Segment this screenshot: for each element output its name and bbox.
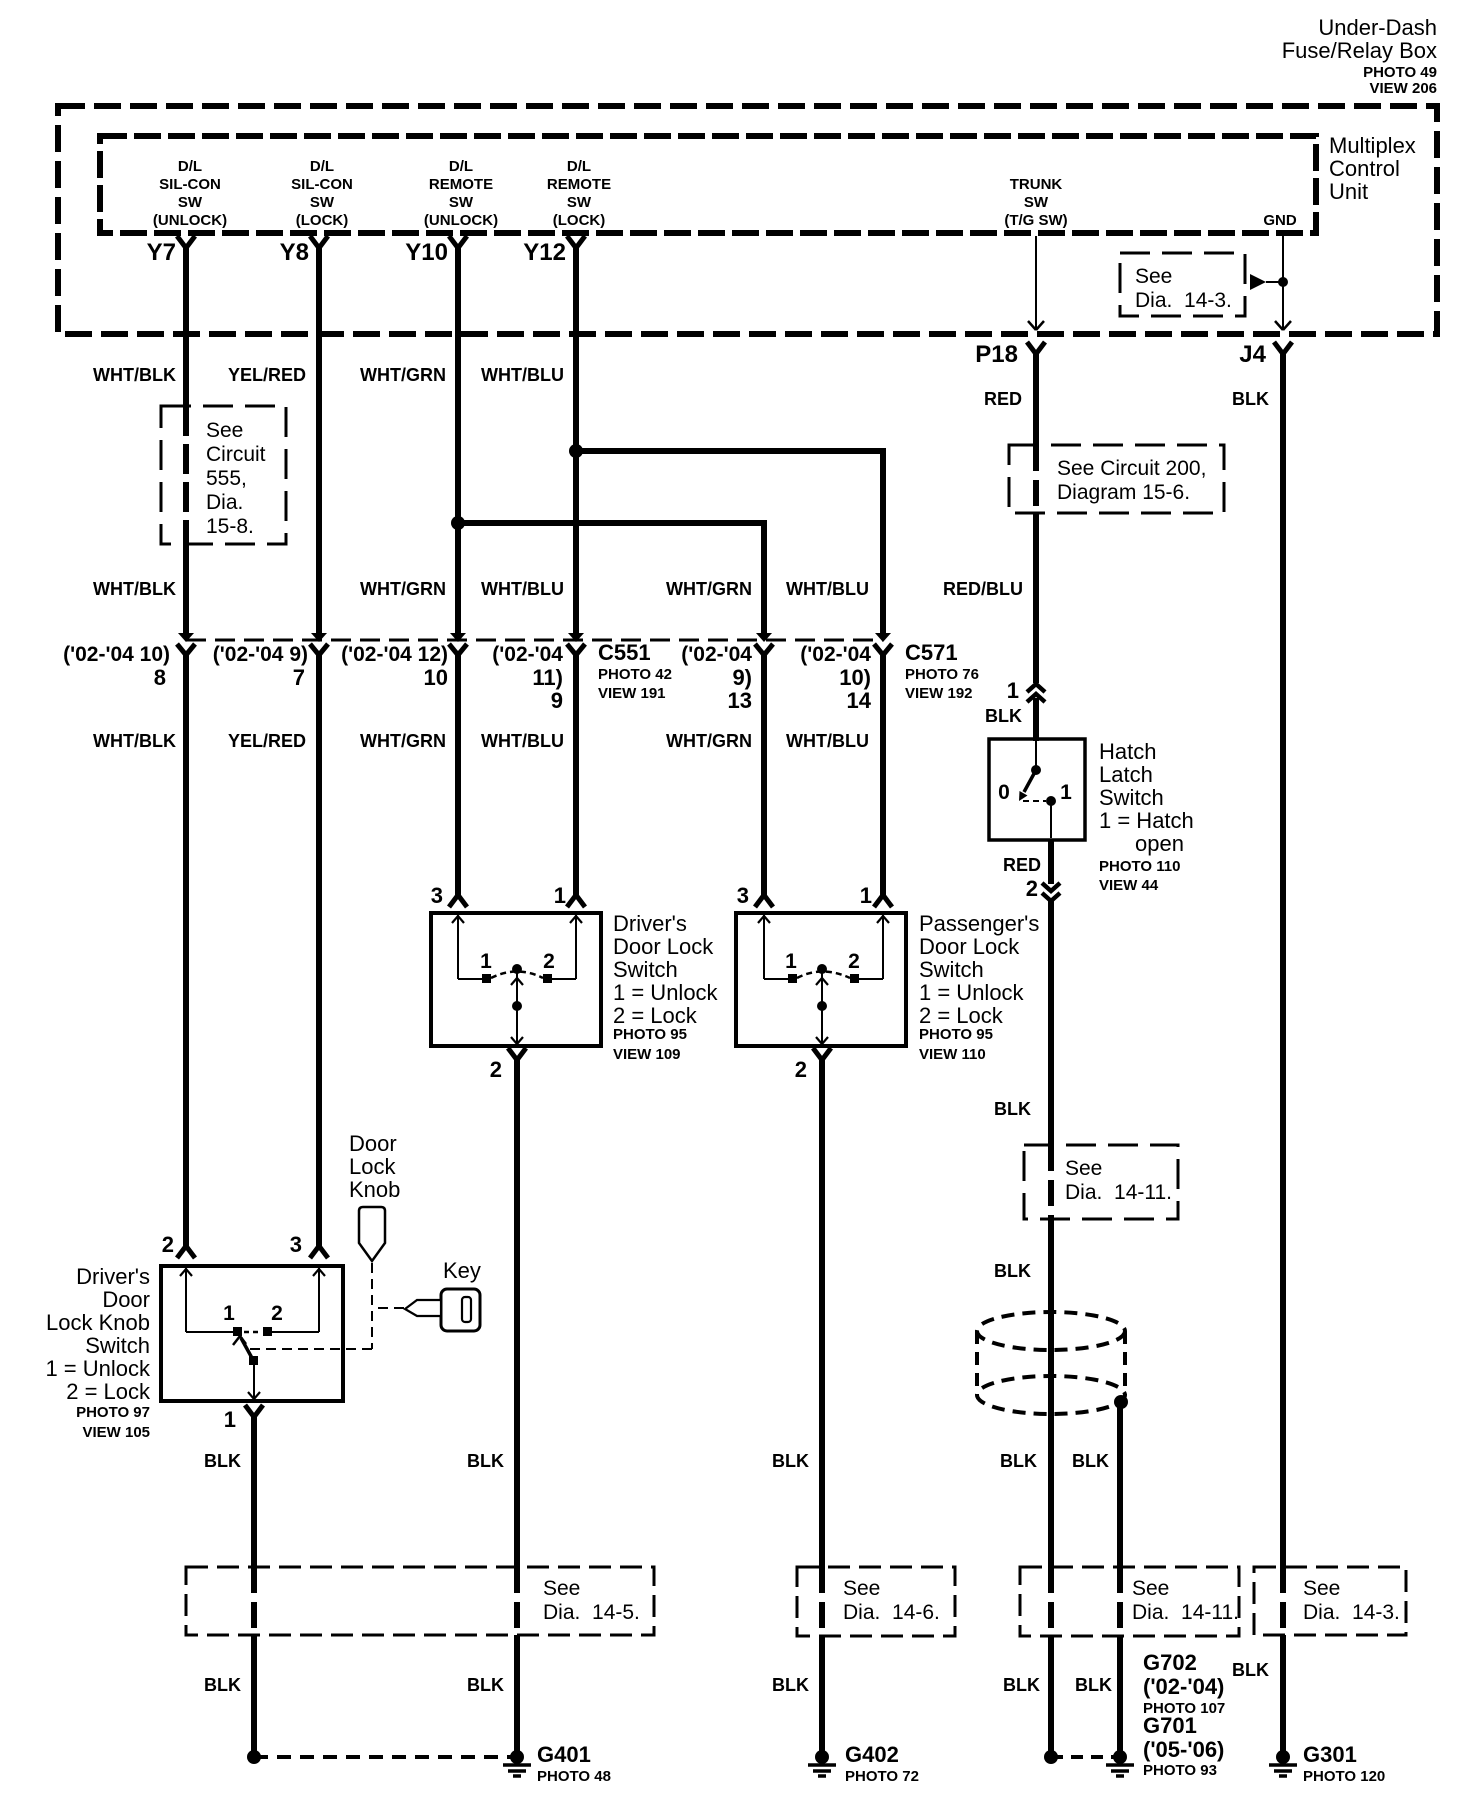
door lock switch pin 2 internal lead xyxy=(821,972,823,1044)
wire Y7 segment to connector C551 xyxy=(183,545,189,634)
driver's door lock switch pin 2 fork xyxy=(508,1048,526,1060)
dashed ground link to G702/G701 xyxy=(1051,1755,1120,1759)
passenger's door lock switch pin 1 fork xyxy=(874,895,892,907)
wire BLK dashed inside See Dia. 14-5 box (knob switch) xyxy=(251,1567,257,1635)
in-line connector terminals at x=319 xyxy=(311,633,327,642)
ground G702/G701 xyxy=(1113,1750,1127,1764)
driver's door lock knob switch box xyxy=(161,1266,343,1401)
wire BLK branch to ground G702/G701 xyxy=(1117,1635,1123,1752)
pin P18 connector fork xyxy=(1027,342,1045,354)
door lock switch contact 2 xyxy=(543,974,552,983)
mechanical link: key to knob link (dashed) xyxy=(373,1307,404,1309)
wire BLK dashed inside See Dia. 14-6 box xyxy=(819,1567,825,1635)
hatch latch switch box xyxy=(989,739,1085,840)
passenger's door lock switch pin 2 fork xyxy=(813,1048,831,1060)
knob switch pin 2 internal lead xyxy=(185,1268,187,1332)
in-line connector terminals at x=764 xyxy=(756,633,772,642)
knob switch pin 1 internal lead xyxy=(253,1365,255,1399)
door lock switch wiper pivot xyxy=(817,964,827,974)
key symbol head xyxy=(441,1289,480,1331)
mechanical link: knob to switch arm (dashed) xyxy=(371,1263,373,1349)
wire WHT/GRN lower segment to driver's door lock switch pin 3 xyxy=(455,651,461,897)
door lock switch contact 2 xyxy=(850,974,859,983)
wire WHT/BLU branch vertical run to C551 xyxy=(880,448,886,634)
door lock switch pin 3 internal lead xyxy=(457,915,459,979)
driver's door lock switch pin 1 fork xyxy=(567,895,585,907)
driver's door lock switch pin 3 fork xyxy=(449,895,467,907)
reference box: See Dia. 14-5 xyxy=(186,1567,654,1635)
pin J4 connector fork xyxy=(1274,342,1292,354)
wire WHT/GRN lower segment to passenger's door lock switch pin 3 xyxy=(761,651,767,897)
knob switch dashed throw xyxy=(244,1331,262,1334)
passenger's door lock switch pin 3 fork xyxy=(755,895,773,907)
door lock switch pin 2 internal lead xyxy=(516,972,518,1044)
key symbol blade xyxy=(405,1300,441,1316)
dashed ground link to G401 xyxy=(254,1755,517,1759)
wire Y12 WHT/BLU to connector C551 xyxy=(573,246,579,634)
node: hatch circuit ground splice xyxy=(1044,1750,1058,1764)
in-line connector terminals at x=576 xyxy=(568,633,584,642)
hatch latch switch contact 1 lead xyxy=(1050,801,1052,838)
wire BLK into hatch latch switch xyxy=(1033,698,1039,741)
node on wire Y12 (junction to passenger door lock switch pin 1) xyxy=(569,444,583,458)
in-line connector terminals at x=186 xyxy=(178,633,194,642)
harness loop left side xyxy=(975,1331,979,1395)
wire BLK passenger's switch to ground G402 xyxy=(819,1635,825,1752)
wire BLK below connector 2 xyxy=(1048,899,1054,1145)
wire BLK from J4 xyxy=(1280,352,1286,1567)
wire BLK from See 14-11 box to harness loop xyxy=(1048,1219,1054,1567)
wire RED from hatch latch switch pin 2 xyxy=(1048,840,1054,884)
wire BLK dashed inside See Dia. 14-11 bottom box (branch) xyxy=(1117,1567,1123,1635)
door lock knob symbol xyxy=(359,1207,385,1261)
node on GND lead (link to See Dia. 14-3) xyxy=(1278,277,1288,287)
wire WHT/GRN branch vertical run to C551 xyxy=(761,520,767,634)
driver's door lock switch box xyxy=(431,913,601,1046)
passenger's door lock switch box xyxy=(736,913,906,1046)
connector C551/C571 dashed separation line xyxy=(186,639,883,642)
door lock switch dashed wiper travel xyxy=(491,972,543,979)
door lock switch dashed wiper travel xyxy=(797,972,850,979)
hatch latch switch dashed throw xyxy=(1023,800,1046,802)
wire BLK from driver's door lock switch pin 2 xyxy=(514,1056,520,1567)
reference box: See Dia. 14-3 (bottom) xyxy=(1254,1567,1406,1635)
pin P18 lead inside fuse/relay box xyxy=(1035,236,1037,329)
node on harness loop (branch to G702/G701) xyxy=(1114,1395,1128,1409)
link arrow from See Dia. 14-3 box xyxy=(1266,281,1281,283)
wire BLK dashed inside See Dia. 14-5 box (driver's switch) xyxy=(514,1567,520,1635)
node: knob switch ground splice xyxy=(247,1750,261,1764)
pin GND lead inside fuse/relay box xyxy=(1282,236,1284,329)
wire Y7 dashed inside See-Circuit-555 box xyxy=(183,406,189,545)
ground G402 xyxy=(815,1750,829,1764)
wire BLK to ground G701 area xyxy=(1048,1635,1054,1752)
wire RED dashed inside See-Circuit-200 box xyxy=(1033,445,1039,513)
harness loop (dashed cylinder) upper ellipse xyxy=(977,1312,1125,1350)
wire BLK J4 to ground G301 xyxy=(1280,1635,1286,1752)
wire WHT/BLU lower segment to passenger's door lock switch pin 1 xyxy=(880,651,886,897)
door lock switch wiper pivot xyxy=(512,964,522,974)
wire Y10 WHT/GRN to connector C551 xyxy=(455,246,461,634)
wire Y8 lower segment (to knob switch pin 3) xyxy=(316,651,322,1248)
wire Y7 lower segment (to knob switch pin 2) xyxy=(183,651,189,1248)
reference box: See Dia. 14-11 (bottom) xyxy=(1020,1567,1239,1636)
wire Y8 YEL/RED to connector C551 xyxy=(316,246,322,634)
pin Y8 connector fork xyxy=(310,236,328,248)
hatch latch switch common contact lead xyxy=(1035,741,1037,767)
under-dash fuse/relay box (outer dashed enclosure) xyxy=(58,106,1437,334)
wire BLK branch from harness loop to ground xyxy=(1117,1402,1123,1567)
pin Y10 connector fork xyxy=(449,236,467,248)
wire Y7 WHT/BLK upper segment xyxy=(183,246,189,406)
harness loop right side xyxy=(1123,1331,1127,1395)
knob switch contact 2 xyxy=(263,1327,272,1336)
knob switch pin 1 fork xyxy=(245,1405,263,1417)
driver's door lock knob switch pin 2 fork xyxy=(177,1246,195,1258)
door lock switch contact 1 xyxy=(788,974,797,983)
reference box: See Circuit 555, Dia. 15-8 xyxy=(161,406,286,544)
wire BLK knob switch to ground G401 xyxy=(251,1635,257,1752)
wire BLK dashed inside See Dia. 14-11 bottom box (main) xyxy=(1048,1567,1054,1635)
in-line connector terminals at x=458 xyxy=(450,633,466,642)
door lock switch contact 1 xyxy=(482,974,491,983)
knob switch pin 3 internal lead xyxy=(318,1268,320,1332)
reference box: See Dia. 14-3 (top) xyxy=(1120,253,1245,316)
harness loop lower ellipse xyxy=(977,1376,1125,1414)
knob switch arm xyxy=(241,1338,252,1358)
knob switch contact 1 xyxy=(233,1327,242,1336)
key symbol slot xyxy=(462,1297,471,1322)
hatch latch switch arm xyxy=(1024,770,1036,792)
ground G301 xyxy=(1276,1750,1290,1764)
in-line connector 2 (hatch latch switch) xyxy=(1042,883,1060,891)
wire BLK from passenger's door lock switch pin 2 xyxy=(819,1056,825,1567)
ground G401 xyxy=(510,1750,524,1764)
in-line connector terminals at x=883 xyxy=(875,633,891,642)
wire RED/BLU to connector 1 xyxy=(1033,513,1039,683)
node on wire Y10 (junction to passenger door lock switch pin 3) xyxy=(451,516,465,530)
reference box: See Dia. 14-6 xyxy=(797,1567,955,1636)
driver's door lock knob switch pin 3 fork xyxy=(310,1246,328,1258)
door lock switch pin 3 internal lead xyxy=(763,915,765,979)
pin Y12 connector fork xyxy=(567,236,585,248)
knob switch arm contact xyxy=(249,1356,258,1365)
wire WHT/BLU lower segment to driver's door lock switch pin 1 xyxy=(573,651,579,897)
pin Y7 connector fork xyxy=(177,236,195,248)
door lock switch pin 1 internal lead xyxy=(575,915,577,979)
wire BLK from knob switch pin 1 xyxy=(251,1413,257,1567)
reference box: See Circuit 200, Diagram 15-6 xyxy=(1009,445,1224,513)
wire BLK dashed inside See Dia. 14-11 box xyxy=(1048,1145,1054,1219)
door lock switch pin 1 internal lead xyxy=(882,915,884,979)
wire BLK dashed inside See Dia. 14-3 bottom box xyxy=(1280,1567,1286,1635)
wire BLK driver's switch to ground G401 xyxy=(514,1635,520,1752)
reference box: See Dia. 14-11 (middle) xyxy=(1024,1145,1178,1219)
hatch latch switch contact 1 xyxy=(1046,796,1056,806)
wire WHT/GRN branch horizontal run xyxy=(455,520,764,526)
wire WHT/BLU branch horizontal run xyxy=(573,448,883,454)
in-line connector 1 (hatch latch switch) xyxy=(1027,684,1045,692)
wire RED from P18 xyxy=(1033,352,1039,445)
multiplex control unit U1 (inner dashed box) xyxy=(100,136,1316,233)
hatch latch switch common contact xyxy=(1031,765,1041,775)
